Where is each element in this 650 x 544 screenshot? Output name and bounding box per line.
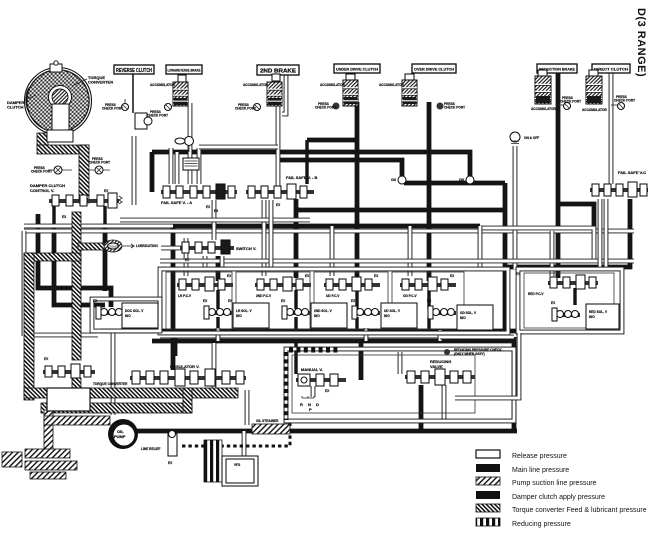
- wire: [242, 431, 247, 456]
- svg-text:DIRECT CLUTCH: DIRECT CLUTCH: [594, 67, 628, 72]
- wire: [262, 200, 267, 276]
- solenoid UD: [351, 299, 417, 328]
- oil pan bar 2: [25, 461, 77, 470]
- switch valve: [180, 240, 256, 262]
- legend damper apply: [476, 491, 605, 501]
- svg-text:ACCUMULATOR: ACCUMULATOR: [150, 83, 176, 87]
- oil pan bar 3: [30, 472, 66, 479]
- accumulator DIRECT: [582, 70, 608, 112]
- VFS: [204, 440, 258, 486]
- wire: [355, 102, 360, 281]
- wire: [419, 385, 424, 431]
- label UNDER DRIVE CLUTCH: [334, 64, 380, 73]
- svg-text:(ONLY WHEN ASSY): (ONLY WHEN ASSY): [454, 352, 485, 356]
- wire: [36, 214, 41, 226]
- svg-text:DOC SOL. V: DOC SOL. V: [125, 309, 144, 313]
- pipe converter down: [37, 133, 48, 147]
- svg-text:ON: ON: [391, 178, 396, 182]
- legend main line: [476, 464, 569, 474]
- svg-text:ACCUMULATOR: ACCUMULATOR: [320, 83, 346, 87]
- svg-text:RED SOL. V: RED SOL. V: [589, 310, 608, 314]
- valve RED PCV: [516, 272, 598, 296]
- wire: [24, 333, 98, 338]
- wire: [438, 330, 443, 341]
- label OVER DRIVE CLUTCH: [412, 64, 456, 73]
- accumulator 2ND: [267, 74, 282, 106]
- wire: [427, 102, 432, 281]
- svg-text:P: P: [309, 407, 312, 412]
- wire: [22, 231, 27, 336]
- wire: [404, 181, 505, 186]
- line relief valve: [141, 431, 177, 466]
- valve OD PCV: [400, 274, 456, 298]
- svg-text:UD SOL. V: UD SOL. V: [384, 309, 401, 313]
- wire: [609, 72, 614, 184]
- wire: [135, 429, 517, 434]
- solenoid 2ND: [281, 299, 347, 328]
- wire: [478, 226, 483, 269]
- check port L&R: [147, 104, 172, 118]
- wire: [216, 317, 219, 331]
- wire: [294, 290, 297, 309]
- svg-text:TORQUE CONVERTER: TORQUE CONVERTER: [93, 382, 128, 386]
- wire: [38, 225, 111, 307]
- wire: [398, 352, 403, 374]
- check port 2ND: [235, 103, 261, 111]
- legend release: [476, 450, 567, 460]
- wire: [24, 224, 173, 229]
- box extension right: [440, 335, 514, 340]
- svg-text:OD SOL. V: OD SOL. V: [460, 311, 477, 315]
- valve UD PCV: [324, 274, 380, 298]
- box manual/reducing enclosure: [286, 349, 514, 421]
- oil strainer: [252, 419, 290, 434]
- svg-text:ON & OFF: ON & OFF: [524, 136, 539, 140]
- svg-text:Pump suction line pressure: Pump suction line pressure: [512, 480, 597, 487]
- svg-text:CHECK PORT: CHECK PORT: [560, 100, 581, 104]
- wire: [111, 330, 116, 415]
- svg-text:MANUAL V.: MANUAL V.: [301, 367, 323, 372]
- svg-text:OIL STRAINER: OIL STRAINER: [256, 419, 279, 423]
- svg-text:LR P.C.V: LR P.C.V: [178, 294, 192, 298]
- svg-text:Main line pressure: Main line pressure: [512, 467, 569, 474]
- wire: [513, 146, 518, 269]
- svg-text:CHECK PORT: CHECK PORT: [235, 107, 256, 111]
- svg-text:OVER DRIVE CLUTCH: OVER DRIVE CLUTCH: [414, 67, 454, 72]
- svg-text:Damper clutch apply pressure: Damper clutch apply pressure: [512, 494, 605, 501]
- svg-text:CHECK PORT: CHECK PORT: [31, 170, 52, 174]
- wire: [132, 74, 134, 113]
- inner enclosure wall: [292, 355, 475, 413]
- wire: [216, 290, 219, 309]
- svg-text:ACCUMULATOR: ACCUMULATOR: [379, 83, 405, 87]
- torque converter body: [25, 61, 92, 142]
- wire: [269, 200, 274, 269]
- torque converter valve small: [43, 357, 128, 386]
- svg-text:PUMP: PUMP: [114, 434, 126, 439]
- manual valve: [296, 367, 346, 412]
- wire: [160, 259, 634, 264]
- wire: [212, 200, 217, 240]
- on-off solenoid: [510, 132, 539, 144]
- wire: [408, 226, 413, 276]
- wire: [355, 290, 358, 309]
- pipe branch left: [24, 253, 81, 261]
- feed riser near regulator: [183, 388, 192, 413]
- wire: [152, 339, 514, 344]
- svg-text:UNDER DRIVE CLUTCH: UNDER DRIVE CLUTCH: [336, 67, 378, 72]
- accumulator UD: [343, 74, 358, 106]
- check port reverse: [102, 99, 129, 111]
- label damper clutch: [7, 95, 36, 110]
- accumulator RED: [531, 70, 557, 111]
- solenoid RED: [551, 301, 619, 329]
- label torque converter: [72, 75, 113, 86]
- wire: [558, 204, 594, 231]
- check ports converter X pair: [31, 166, 72, 174]
- wire: [203, 256, 208, 269]
- wire: [330, 226, 335, 276]
- wire: [307, 138, 357, 143]
- suction to pump: [44, 416, 110, 425]
- wire: [103, 225, 108, 291]
- wire: [305, 140, 308, 184]
- wire: [150, 152, 155, 192]
- label 2ND BRAKE: [257, 65, 299, 75]
- wire: [480, 228, 594, 259]
- reducing valve: [405, 359, 475, 385]
- wire: [216, 256, 221, 281]
- svg-text:Release pressure: Release pressure: [512, 453, 567, 460]
- svg-text:LOW&REVERSE BRAKE: LOW&REVERSE BRAKE: [168, 68, 201, 73]
- solenoid OD: [427, 299, 493, 330]
- wire: [278, 160, 402, 176]
- node ON 2: [459, 176, 474, 184]
- svg-text:VFS: VFS: [234, 463, 240, 467]
- solenoid LR: [203, 299, 269, 328]
- pipe horizontal: [37, 145, 89, 154]
- sub box OD: [392, 272, 464, 329]
- legend reducing: [476, 518, 571, 528]
- check port 2: [89, 157, 110, 174]
- suction riser from pan: [44, 410, 53, 452]
- reducing pressure check: [444, 348, 502, 356]
- svg-text:CHECK PORT: CHECK PORT: [315, 106, 336, 110]
- reducing feed to VFS: [182, 421, 290, 446]
- wire: [216, 328, 221, 341]
- feed band 2: [41, 403, 192, 413]
- wire: [169, 148, 174, 184]
- wire: [103, 206, 106, 226]
- wire: [276, 74, 281, 186]
- wire: [296, 208, 505, 213]
- box DOC cluster: [92, 299, 160, 331]
- svg-text:FAIL SAFE V. - A: FAIL SAFE V. - A: [161, 200, 192, 205]
- wire: [171, 226, 176, 370]
- svg-text:N/O: N/O: [125, 314, 131, 318]
- sub box LR: [166, 272, 232, 329]
- wire: [175, 152, 180, 184]
- cooler: [104, 240, 158, 252]
- svg-text:LINE RELIEF: LINE RELIEF: [141, 447, 161, 451]
- accumulator OD: [402, 74, 417, 106]
- fail safe valve C: [590, 170, 648, 197]
- wire: [212, 343, 217, 393]
- svg-text:CONVERTER: CONVERTER: [88, 80, 113, 85]
- wire: [197, 148, 202, 184]
- valve 2ND PCV: [255, 274, 311, 298]
- svg-text:N/O: N/O: [314, 314, 320, 318]
- oil pump: [108, 419, 138, 449]
- svg-text:UD P.C.V: UD P.C.V: [326, 294, 340, 298]
- svg-text:REGULATOR V.: REGULATOR V.: [170, 364, 200, 369]
- svg-text:N/O: N/O: [236, 314, 242, 318]
- wire: [24, 229, 634, 234]
- label DIRECT CLUTCH: [592, 64, 630, 73]
- svg-text:N/O: N/O: [384, 314, 390, 318]
- svg-text:D(3 RANGE): D(3 RANGE): [635, 8, 647, 77]
- feed band 1: [24, 388, 238, 398]
- fail safe valve B: [246, 175, 317, 211]
- wire: [161, 246, 182, 251]
- wire: [173, 224, 480, 229]
- check loop: [135, 113, 152, 129]
- accumulator L&R: [173, 75, 188, 106]
- wire: [598, 199, 603, 269]
- label LOW&REVERSE BRAKE: [166, 65, 202, 74]
- svg-text:SWITCH V.: SWITCH V.: [236, 246, 256, 251]
- regulator valve: [130, 364, 246, 386]
- svg-text:COOLER: COOLER: [108, 245, 119, 248]
- wire: [52, 206, 55, 226]
- svg-text:REVERSE CLUTCH: REVERSE CLUTCH: [116, 68, 152, 74]
- svg-text:CHECK PORT: CHECK PORT: [89, 161, 110, 165]
- pipe DCC to TC valve: [72, 212, 81, 360]
- svg-text:ACCUMULATOR: ACCUMULATOR: [531, 107, 557, 111]
- wire: [311, 386, 316, 397]
- wire: [120, 218, 310, 223]
- sub box RED: [524, 273, 614, 328]
- svg-text:N/O: N/O: [589, 315, 595, 319]
- pipe left down: [24, 253, 34, 400]
- wire: [505, 199, 630, 267]
- svg-text:LUBRICATION: LUBRICATION: [136, 244, 158, 248]
- svg-text:ACCUMULATOR: ACCUMULATOR: [582, 108, 608, 112]
- svg-text:CHECK PORT: CHECK PORT: [102, 107, 123, 111]
- label REVERSE CLUTCH: [114, 65, 154, 74]
- fail safe valve A: [161, 184, 237, 213]
- wire: [573, 288, 576, 305]
- wire: [245, 390, 250, 425]
- pipe to cooler: [78, 243, 106, 250]
- oil pan bar 1: [25, 449, 70, 458]
- wire: [294, 199, 299, 278]
- wire: [427, 290, 430, 309]
- wire: [550, 231, 555, 276]
- wire: [54, 225, 105, 305]
- small label box: [183, 158, 199, 170]
- pipe below TC valve: [72, 378, 81, 390]
- wire: [364, 328, 369, 341]
- pump housing box: [47, 388, 90, 411]
- small pan box: [2, 452, 22, 467]
- check port DIRECT: [611, 95, 635, 110]
- wire: [180, 74, 185, 84]
- wire: [160, 334, 505, 339]
- wire: [100, 329, 520, 334]
- wire: [294, 317, 297, 331]
- check port UD: [315, 102, 340, 110]
- svg-text:CHECK PORT: CHECK PORT: [614, 99, 635, 103]
- wire: [556, 72, 561, 278]
- svg-text:2ND SOL. V: 2ND SOL. V: [314, 309, 333, 313]
- svg-text:OD P.C.V: OD P.C.V: [403, 294, 417, 298]
- svg-text:RED P.C.V: RED P.C.V: [528, 292, 544, 296]
- svg-text:ON: ON: [459, 178, 464, 182]
- wire: [220, 256, 225, 269]
- sub box UD: [314, 272, 388, 329]
- legend pump suction: [476, 477, 597, 487]
- pipe down to valve: [79, 145, 89, 203]
- svg-text:Reducing pressure: Reducing pressure: [512, 521, 571, 528]
- svg-text:FAIL SAFE V. - B: FAIL SAFE V. - B: [286, 175, 317, 180]
- svg-text:CHECK PORT: CHECK PORT: [444, 106, 465, 110]
- check port RED: [558, 96, 581, 110]
- check port OD: [437, 102, 466, 110]
- svg-text:VALVE: VALVE: [430, 364, 443, 369]
- svg-text:2ND P.C.V: 2ND P.C.V: [256, 294, 272, 298]
- svg-text:CHECK PORT: CHECK PORT: [147, 114, 168, 118]
- svg-text:CLUTCH: CLUTCH: [7, 105, 24, 110]
- svg-text:LR SOL. V: LR SOL. V: [236, 309, 252, 313]
- damper clutch control valve: [30, 183, 122, 219]
- svg-text:CONTROL V.: CONTROL V.: [30, 188, 54, 193]
- node ON 1: [391, 176, 406, 184]
- svg-text:FAIL SAFE V-C: FAIL SAFE V-C: [618, 170, 646, 175]
- label REDUCTION BRAKE: [537, 64, 577, 73]
- svg-text:N/O: N/O: [460, 316, 466, 320]
- box solenoid cluster B: [518, 269, 622, 332]
- wire: [184, 238, 189, 276]
- reducing dashed edge: [284, 352, 289, 420]
- svg-text:ACCUMULATOR: ACCUMULATOR: [243, 83, 269, 87]
- sub box 2ND: [236, 272, 310, 329]
- wire: [355, 317, 358, 331]
- wire: [442, 385, 447, 420]
- solenoid DOC: [93, 299, 158, 328]
- relief ball: [175, 137, 194, 153]
- legend torque feed: [476, 504, 647, 514]
- svg-text:Torque converter Feed & lubric: Torque converter Feed & lubricant pressu…: [512, 507, 647, 514]
- wire: [199, 145, 278, 150]
- wire: [503, 183, 508, 331]
- box solenoid cluster A: [160, 269, 508, 333]
- valve LR PCV: [177, 274, 233, 298]
- wire: [152, 152, 470, 176]
- wire: [427, 317, 430, 331]
